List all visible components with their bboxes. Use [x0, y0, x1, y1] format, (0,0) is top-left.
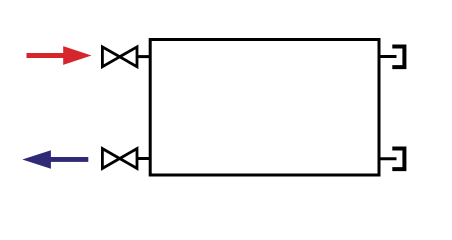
wire: valve V1 to radiator inlet	[137, 55, 152, 58]
valve V1 (supply shut-off valve)	[102, 47, 137, 67]
wire: radiator top-right tapping	[379, 55, 397, 58]
plug P1 (top-right blanking plug)	[392, 47, 404, 68]
plug P2 (bottom-right blanking plug)	[392, 149, 404, 170]
wire: radiator outlet to valve V2	[137, 157, 152, 160]
flow arrow (red, supply)	[27, 46, 92, 65]
wire: radiator bottom-right tapping	[379, 157, 397, 160]
valve V2 (return shut-off valve)	[102, 149, 137, 169]
return arrow (blue)	[22, 150, 88, 169]
radiator body	[150, 40, 379, 176]
